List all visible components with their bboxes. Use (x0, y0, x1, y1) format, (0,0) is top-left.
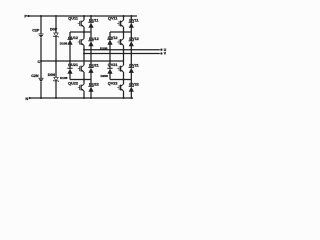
wire clamp rail U (69, 32, 71, 39)
svg-text:QU22: QU22 (68, 82, 78, 86)
junction C-rail1 (40, 60, 42, 62)
junction N-rail1 (40, 97, 42, 99)
diode DV12 (129, 32, 134, 50)
diode DU21 (88, 54, 93, 80)
node B2 wire (110, 79, 131, 81)
output wire U (84, 49, 160, 51)
transistor QV12 (117, 32, 123, 50)
junction N-DU22 (90, 97, 92, 99)
svg-text:N: N (25, 96, 28, 101)
diode DV21 (129, 54, 134, 80)
diode DU11 (88, 16, 93, 32)
diode DV11 (129, 16, 134, 32)
node B1 wire (70, 79, 91, 81)
svg-text:D0P: D0P (50, 27, 58, 31)
svg-text:DV22: DV22 (129, 83, 139, 87)
junction P-rail2 (55, 15, 57, 17)
wire mid col2 Q (123, 50, 125, 54)
svg-text:QU21: QU21 (68, 63, 78, 67)
junction P-DV11 (130, 15, 132, 17)
clamp diode D205 (107, 39, 112, 45)
transistor QU12 (78, 32, 84, 50)
junction V-QU21 (83, 53, 85, 55)
node A2 wire (110, 31, 131, 33)
svg-text:P: P (24, 14, 27, 19)
wire rail C2 (P to N) (40, 16, 42, 34)
junction N-QV22 (123, 97, 125, 99)
junction C-rail2 (55, 60, 57, 62)
junction A2-QV (123, 31, 125, 33)
wire mid col1 D (90, 50, 92, 54)
svg-text:D206: D206 (101, 74, 109, 78)
junction U-DV12 (130, 49, 132, 51)
transistor QU11 (78, 16, 84, 32)
wire mid col2 D (130, 50, 132, 54)
capacitor C2P (39, 34, 44, 38)
junction V-QV21 (123, 53, 125, 55)
junction V-DV21 (130, 53, 132, 55)
svg-text:QV22: QV22 (108, 82, 118, 86)
capacitor C2N (39, 78, 44, 82)
wire mid col1 Q (83, 50, 85, 54)
junction P-DU11 (90, 15, 92, 17)
junction U-QU12 (83, 49, 85, 51)
junction N-QU22 (83, 97, 85, 99)
svg-text:QU11: QU11 (68, 16, 78, 20)
neutral bus C (41, 60, 124, 62)
clamp diode D206 (107, 68, 112, 74)
junction P-QU11 (83, 15, 85, 17)
svg-text:DU21: DU21 (89, 64, 99, 68)
clamp diode D105 (67, 39, 72, 45)
svg-text:C: C (37, 60, 40, 64)
transistor QV22 (117, 80, 123, 99)
junction B1-QU (83, 79, 85, 81)
zener diode D0P (53, 33, 59, 38)
N bus (31, 97, 133, 99)
diode DU12 (88, 32, 93, 50)
transistor QV21 (117, 54, 123, 80)
transistor QU21 (78, 54, 84, 80)
svg-text:DV11: DV11 (129, 19, 138, 23)
junction N-DV22 (130, 97, 132, 99)
svg-text:DV21: DV21 (129, 64, 139, 68)
svg-text:D105: D105 (60, 42, 68, 46)
svg-text:C2N: C2N (31, 74, 39, 78)
svg-text:DU12: DU12 (89, 37, 99, 41)
junction A1-QU (83, 31, 85, 33)
diode DU22 (88, 80, 93, 99)
transistor QV11 (117, 16, 123, 32)
svg-text:QV12: QV12 (108, 36, 118, 40)
output wire V (84, 53, 160, 55)
junction P-rail1 (40, 15, 42, 17)
svg-text:D0N: D0N (48, 73, 56, 77)
svg-text:DU22: DU22 (89, 83, 99, 87)
node A1 wire (70, 31, 91, 33)
junction B2-QV (123, 79, 125, 81)
junction clamp-C col1 (69, 60, 71, 62)
svg-text:C2P: C2P (32, 28, 40, 32)
svg-text:QV11: QV11 (108, 16, 118, 20)
svg-text:D106: D106 (60, 76, 68, 80)
terminal U (160, 49, 162, 51)
svg-text:DU11: DU11 (89, 19, 99, 23)
junction N-rail2 (55, 97, 57, 99)
svg-text:DV12: DV12 (129, 37, 139, 41)
junction U-QV12 (123, 49, 125, 51)
junction clamp-C col2 (109, 60, 111, 62)
svg-text:QU12: QU12 (68, 36, 78, 40)
diode DV22 (129, 80, 134, 99)
P bus (28, 15, 137, 17)
wire rail D0 (P to N) (55, 16, 57, 33)
transistor QU22 (78, 80, 84, 99)
clamp diode D106 (67, 68, 72, 74)
junction U-DU12 (90, 49, 92, 51)
svg-text:QV21: QV21 (108, 63, 118, 67)
junction V-DU21 (90, 53, 92, 55)
zener diode D0N (53, 77, 59, 82)
terminal V (160, 52, 162, 54)
junction P-QV11 (123, 15, 125, 17)
wire clamp rail V (109, 32, 111, 39)
